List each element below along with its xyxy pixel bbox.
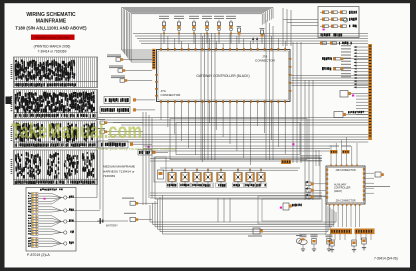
- sender unit L3: [111, 76, 152, 83]
- relay K3: [193, 168, 201, 186]
- centre bus band D: [150, 159, 322, 162]
- top horizontal feeder lines: [133, 34, 368, 44]
- gateway J7A edge connector strip: [152, 49, 155, 70]
- mc motor symbol: [296, 235, 302, 244]
- aux lower connector strip 1: [330, 229, 352, 235]
- printed date note: [34, 45, 71, 49]
- centre bus band B: [108, 135, 368, 143]
- top wire bus bundle: [122, 8, 274, 63]
- sender unit L1: [107, 55, 152, 62]
- inset magenta mark: [44, 198, 46, 200]
- right horizontal bus band 1: [291, 76, 368, 86]
- watermark TakeManual.com: [11, 119, 142, 143]
- top sensor/switch S6: [226, 16, 236, 44]
- aux right stubs: [365, 173, 375, 193]
- cluster fuse F1: [320, 11, 357, 15]
- sheet number 7-39414 (5/4-06): [374, 257, 398, 261]
- top sensor/switch S3: [189, 16, 199, 44]
- title: WIRING SCHEMATIC MAINFRAME: [15, 12, 87, 31]
- bottom small box bus: [258, 196, 326, 224]
- inset connector cluster 1: [28, 192, 97, 205]
- margin stamp: [6, 97, 12, 105]
- fuse relay center enclosure: [154, 157, 320, 199]
- relay K5: [217, 168, 225, 186]
- relay top bus: [160, 168, 300, 170]
- inset connector cluster 2: [28, 206, 100, 214]
- svg-text:WIRING SCHEMATIC: WIRING SCHEMATIC: [26, 12, 76, 18]
- centre wiring loop outline 1: [170, 119, 307, 160]
- svg-text:BATTERY: BATTERY: [106, 224, 118, 228]
- ladder stub wires: [354, 46, 369, 115]
- gateway controller U1 (black): [157, 50, 291, 102]
- watermark small url: [95, 147, 177, 151]
- gateway drop wires: [161, 103, 285, 165]
- horn relay: [248, 228, 263, 237]
- relay K7: [246, 168, 254, 186]
- tall sensor S8: [252, 28, 265, 44]
- labelled relay box L5: [100, 107, 155, 114]
- svg-text:T180 (S/N A3LL11001 AND ABOVE): T180 (S/N A3LL11001 AND ABOVE): [15, 26, 87, 31]
- wire risers from inset: [97, 128, 103, 222]
- harness pin table 2: [14, 90, 98, 119]
- key switch: [124, 213, 152, 222]
- inset detail box P-87019: [26, 188, 76, 252]
- fusible link: [122, 198, 158, 206]
- svg-text:MAINFRAME: MAINFRAME: [36, 19, 67, 25]
- flasher module right: [334, 111, 368, 118]
- svg-text:HARNESS 7139414 or: HARNESS 7139414 or: [103, 169, 134, 173]
- diode block right: [340, 91, 368, 98]
- gateway top pins: [160, 48, 286, 51]
- sender unit L6: [96, 119, 143, 124]
- top sensor/switch S2: [174, 16, 184, 44]
- svg-text:7-39414 (5/4-06): 7-39414 (5/4-06): [374, 257, 398, 261]
- bottom sensor D1: [299, 235, 307, 252]
- top sensor/switch S5: [214, 16, 224, 44]
- harness pin table 4: [14, 150, 98, 185]
- top sensor/switch S1: [159, 16, 169, 44]
- svg-text:Printable Version, Click Here: Printable Version, Click Here: [36, 36, 71, 40]
- aux pressure switch right: [366, 172, 390, 187]
- relay labels: [167, 183, 267, 187]
- aux left components: [305, 181, 326, 199]
- svg-text:(GRAY): (GRAY): [334, 190, 342, 193]
- top-right relay/fuse cluster box: [318, 7, 359, 38]
- relay bottom bus: [150, 193, 322, 198]
- aux lower connector strip 2: [355, 229, 375, 235]
- harness pin table 3: [14, 121, 98, 148]
- relay feed connector: [281, 160, 291, 165]
- svg-text:P-87019 (2)LA: P-87019 (2)LA: [27, 253, 50, 257]
- aux feed mesh: [300, 150, 322, 166]
- aux right pin column: [363, 168, 365, 201]
- gateway riser wires to top bus: [161, 34, 285, 48]
- svg-text:TakeManual.com: TakeManual.com: [11, 119, 142, 143]
- cluster dense label row: [321, 33, 343, 37]
- battery B1: [97, 218, 128, 227]
- inset connector cluster 3: [28, 215, 103, 228]
- ladder labels: [341, 45, 351, 77]
- centre wiring loop outline 2: [176, 123, 300, 155]
- inset caption P-87019 (2)LA: [27, 253, 50, 257]
- table side labels: [11, 64, 13, 174]
- alternator exciter wire set: [280, 203, 302, 210]
- fuel sender assembly: [98, 141, 152, 148]
- sender unit L2: [109, 66, 152, 73]
- top sensor/switch S4: [202, 16, 212, 44]
- svg-text:MEDIUM MAINFRAME: MEDIUM MAINFRAME: [103, 165, 135, 169]
- cluster feeder wires: [283, 8, 318, 46]
- harness pin table 1: [14, 57, 98, 88]
- part number 7-39414 or 7169369: [38, 50, 67, 54]
- lamp/sensor R2: [352, 240, 356, 252]
- aux top pins: [330, 137, 358, 167]
- lamp/sensor R3: [362, 238, 366, 250]
- gateway left pins: [155, 74, 158, 97]
- bus tie verticals: [218, 198, 230, 222]
- inset connector cluster 5: [28, 237, 74, 247]
- cluster fuse F3: [320, 25, 357, 28]
- harness note text: [103, 165, 135, 179]
- bottom return bus: [150, 195, 336, 234]
- tall sensor S7: [237, 26, 242, 44]
- auxiliary fuse pair right: [322, 57, 368, 70]
- inset connector cluster 4: [28, 228, 74, 236]
- sub-cluster fuses below: [320, 42, 352, 45]
- svg-text:CONNECTOR: CONNECTOR: [161, 93, 182, 97]
- svg-text:CONNECTOR: CONNECTOR: [255, 59, 276, 63]
- main frame connector ladder (right): [368, 44, 372, 140]
- centre bus band C: [143, 146, 330, 151]
- wires below strips: [330, 234, 371, 240]
- relay K8: [257, 168, 265, 186]
- seat bar sensor: [138, 146, 168, 155]
- svg-text:7-39414 or 7169369: 7-39414 or 7169369: [38, 50, 67, 54]
- cluster ring terminal: [343, 18, 347, 22]
- svg-text:(PRINTED MARCH 2006): (PRINTED MARCH 2006): [34, 45, 71, 49]
- labelled relay box L4: [104, 97, 155, 104]
- auxiliary controller U2 (gray): [326, 166, 365, 204]
- bottom sensor D3: [326, 235, 333, 252]
- cluster fuse F2: [320, 18, 357, 21]
- aux header connectors above: [329, 146, 351, 154]
- svg-text:J2A CONNECTOR: J2A CONNECTOR: [335, 200, 355, 203]
- magenta splice centre: [292, 143, 294, 145]
- gateway bottom pins: [160, 100, 286, 103]
- svg-text:7169369: 7169369: [103, 174, 115, 178]
- centre vertical feeders: [143, 20, 313, 205]
- aux left pin column: [327, 169, 329, 199]
- gateway right pins: [289, 58, 292, 92]
- bottom sensor D2: [311, 235, 318, 252]
- relay K4: [204, 168, 212, 186]
- relay K1: [168, 168, 176, 186]
- relay K2: [181, 168, 189, 186]
- svg-text:J2B CONNECTOR: J2B CONNECTOR: [335, 169, 355, 172]
- cluster magenta splice: [323, 29, 325, 31]
- red printable-version banner: [31, 35, 75, 40]
- svg-text:Thank you very much for your r: Thank you very much for your reading.: [95, 147, 177, 151]
- aux bottom pins: [329, 204, 361, 228]
- sender unit L7: [96, 128, 143, 133]
- centre bus band A: [97, 118, 368, 126]
- relay K6: [234, 168, 242, 186]
- lamp/sensor R1: [330, 240, 334, 252]
